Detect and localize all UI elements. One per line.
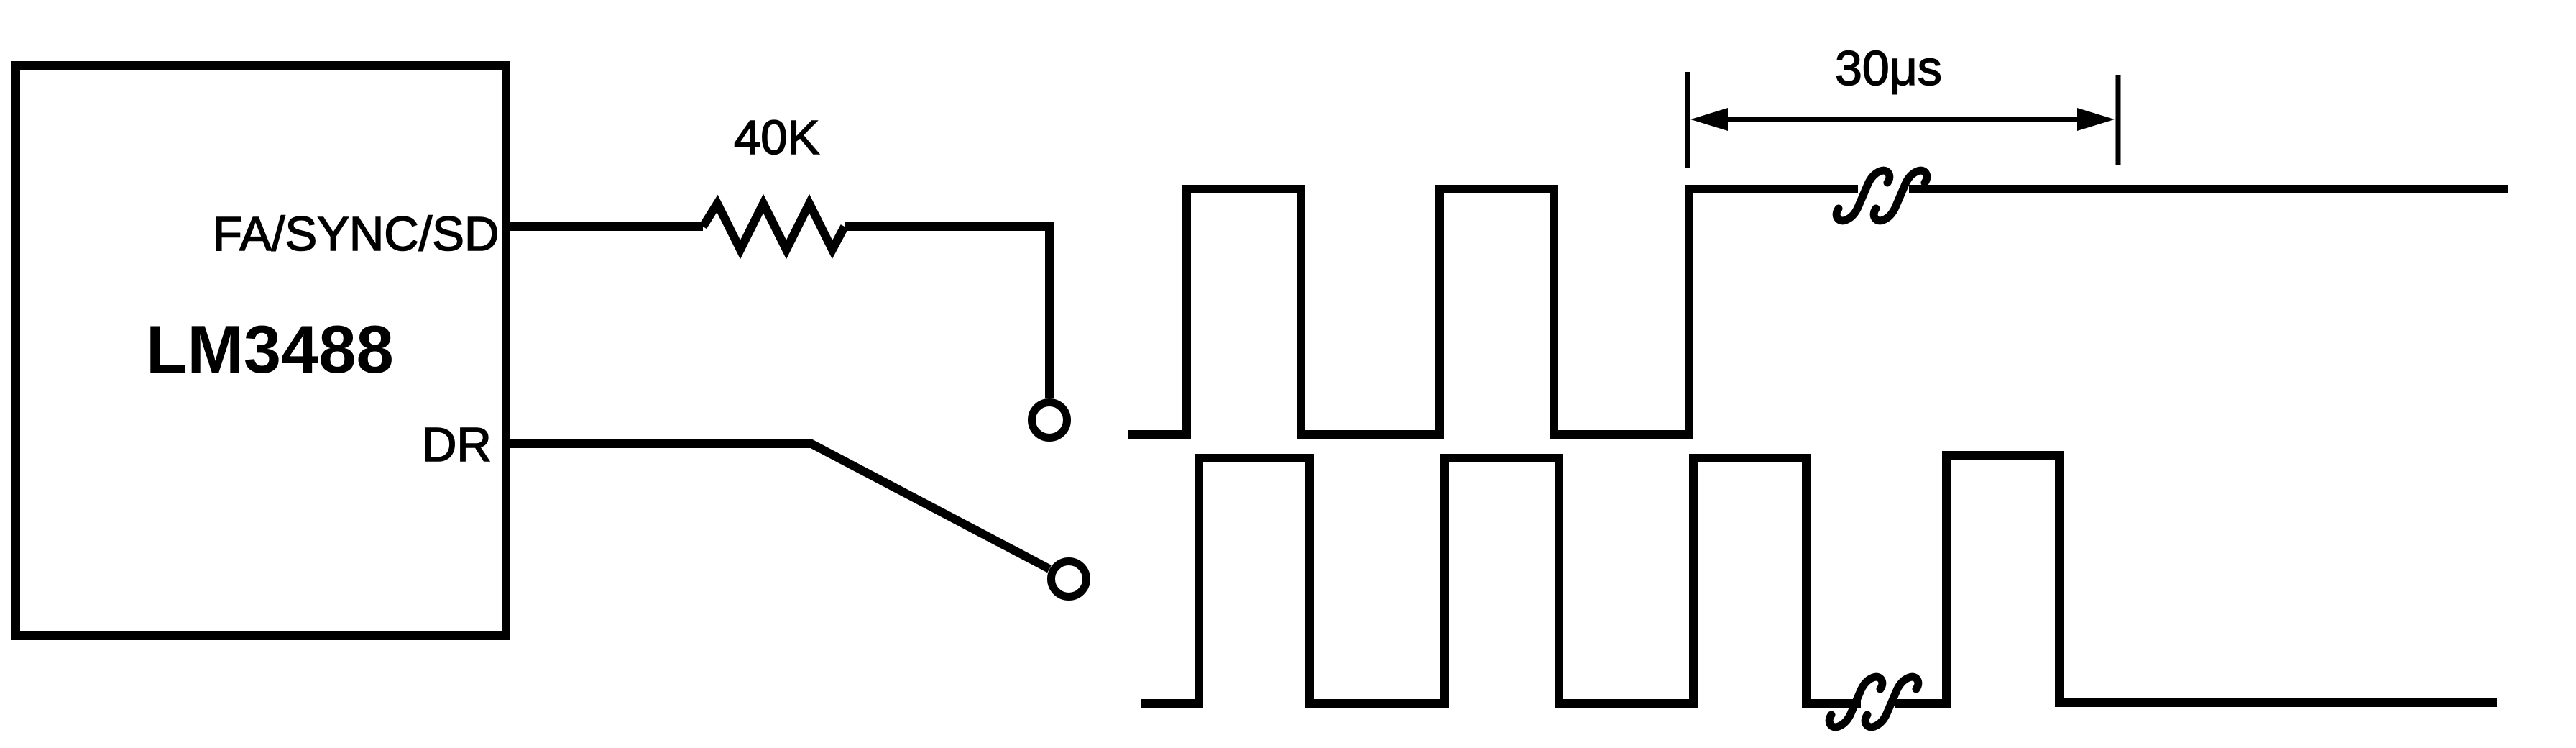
wire from DR pin (switch arm) bbox=[506, 444, 1049, 569]
resistor R1 40K bbox=[703, 204, 845, 250]
arrowhead left bbox=[1690, 108, 1728, 131]
switch terminal circle (top) bbox=[1032, 403, 1067, 438]
svg-text:40K: 40K bbox=[734, 111, 819, 165]
svg-text:FA/SYNC/SD: FA/SYNC/SD bbox=[213, 207, 499, 261]
waveform FA/SYNC/SD (top trace) bbox=[1128, 189, 2508, 434]
wire from resistor to switch pole bbox=[845, 227, 1049, 398]
svg-text:LM3488: LM3488 bbox=[146, 311, 394, 387]
break squiggle 1 on top trace bbox=[1836, 170, 1890, 221]
break squiggle 2 on top trace bbox=[1874, 170, 1927, 221]
svg-text:30μs: 30μs bbox=[1835, 41, 1942, 96]
switch terminal circle (bottom) bbox=[1052, 562, 1087, 597]
break squiggle 2 on bottom trace bbox=[1865, 677, 1918, 727]
break squiggle 1 on bottom trace bbox=[1829, 677, 1882, 727]
waveform DR (bottom trace) bbox=[1141, 455, 2497, 703]
arrowhead right bbox=[2077, 108, 2115, 131]
wire from FA/SYNC/SD pin to resistor bbox=[506, 222, 703, 231]
dimension 30us right tick bbox=[2116, 75, 2121, 165]
dimension 30us left tick bbox=[1685, 72, 1690, 168]
dimension arrow shaft bbox=[1724, 117, 2081, 122]
IC U1 LM3488 box bbox=[16, 65, 506, 636]
svg-text:DR: DR bbox=[422, 418, 492, 472]
